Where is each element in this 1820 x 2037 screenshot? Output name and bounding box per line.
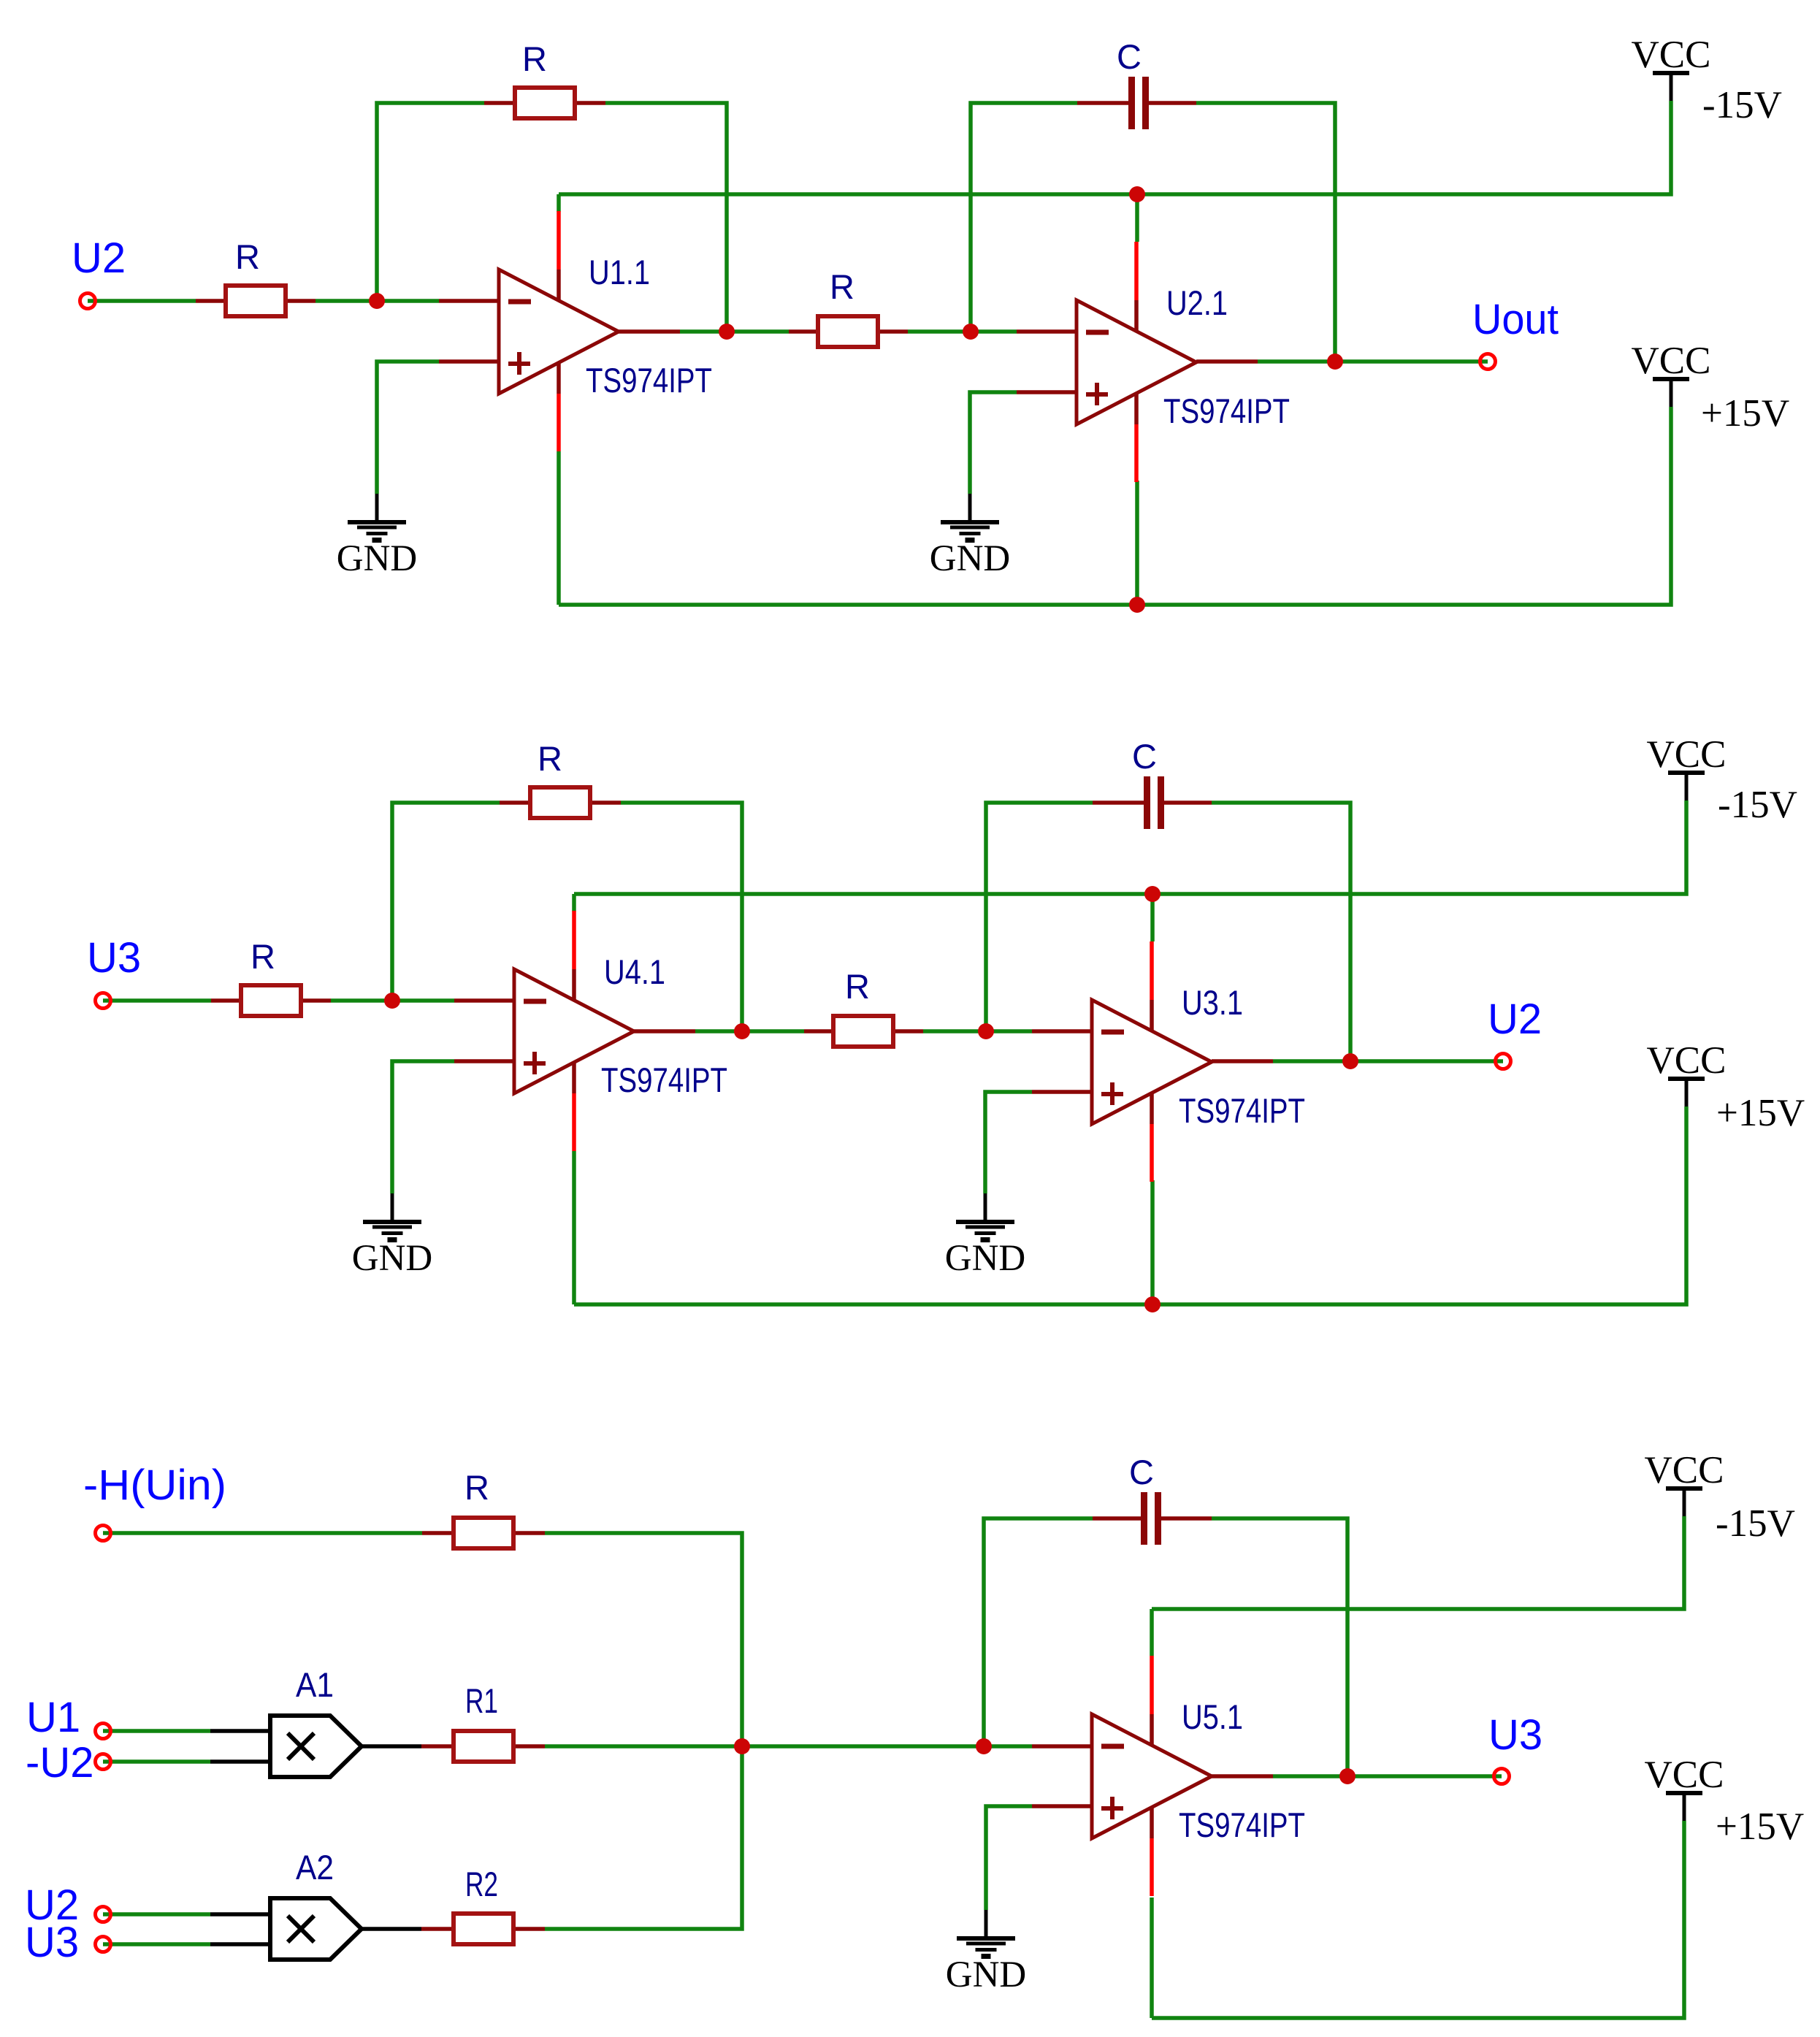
op-amp U4.1 triangle body [514,969,634,1093]
op-amp U4.1 non-inverting input marker [524,1061,546,1066]
pin stub capacitor right [1164,800,1212,805]
power symbol VCC-pos bar [1668,1077,1705,1081]
ground GND-row3 bars [957,1936,1015,1941]
svg-text:GND: GND [930,538,1011,579]
wire cap left vertical + top [986,803,1093,1031]
power symbol VCC-neg-row3 stem [1683,1491,1686,1516]
svg-text:A2: A2 [296,1848,334,1887]
svg-text:VCC: VCC [1645,1449,1724,1491]
wire op1 top pin link [557,194,561,212]
pin stub R2 left [421,1927,451,1931]
op-amp U2.1 inverting input marker [1086,330,1109,335]
power symbol VCC-pos stem [1670,381,1673,407]
input port -U2 [96,1754,111,1770]
wire -H(Uin) port to resistor [103,1531,422,1535]
multiplier A2 input pin lower [210,1942,270,1946]
capacitor C row3 [1141,1492,1147,1545]
wire U1 input [103,1729,210,1733]
op-amp U3.1 triangle body [1092,1000,1212,1124]
wire cap right top + vertical to output [1196,103,1335,362]
svg-text:-15V: -15V [1718,784,1797,826]
ground GND-row3 stem [984,1910,988,1936]
ground GND-b bars [941,520,999,524]
pin stub feedback resistor right [592,800,621,805]
svg-text:GND: GND [337,538,418,579]
wire op2 output to output port [1258,359,1488,364]
ground GND-b bars [956,1220,1014,1224]
wire op2 output to output port [1273,1059,1503,1063]
multiplier A2 X symbol [288,1916,314,1942]
wire cap left vertical + top [984,1518,1093,1746]
ground GND-b stem [984,1193,987,1220]
svg-text:U4.1: U4.1 [604,952,665,991]
junction summing node [734,1738,750,1754]
wire -U2 input [103,1759,210,1764]
op-amp U2.1 non-inverting input marker [1086,392,1108,397]
input port U2 row3 [96,1907,111,1922]
svg-text:U2: U2 [1488,995,1542,1043]
pin stub mid resistor right [895,1029,923,1033]
pin stub input resistor right [302,998,331,1003]
multiplier A1 body [270,1716,362,1777]
op-amp U5.1 V+ power pin (bottom) [1150,1806,1154,1838]
input port -H(Uin) [96,1526,111,1541]
op-amp U5.1 V- power pin (top) [1150,1656,1154,1714]
wire feedback left vertical + top [377,103,484,301]
junction op1 output node [719,324,735,340]
input port U1 [96,1724,111,1739]
power symbol VCC-pos-row3 stem [1683,1795,1686,1821]
ground GND-b stem [968,494,972,520]
wire feedback right top + vertical to output [605,103,727,332]
wire negative supply rail row3 [1152,1516,1684,1609]
svg-text:R: R [464,1468,489,1507]
wire op2 top pin link [1150,894,1155,941]
wire resistor R to summing vertical [545,1533,742,1929]
pin stub capacitor left [1077,101,1128,105]
svg-text:U2: U2 [72,234,126,282]
svg-text:U2.1: U2.1 [1166,283,1228,322]
op-amp U1.1 non-inverting input marker [508,362,530,366]
ground GND-a bars [348,520,406,524]
pin stub capacitor left [1093,800,1144,805]
pin stub feedback resistor left [484,101,513,105]
svg-text:GND: GND [945,1238,1026,1279]
multiplier A1 input pin upper [210,1729,270,1733]
svg-text:VCC: VCC [1647,733,1727,776]
svg-text:+15V: +15V [1701,392,1789,435]
svg-text:TS974IPT: TS974IPT [1179,1091,1305,1130]
svg-text:R: R [830,267,854,306]
wire cap right top + vertical [1212,1518,1347,1776]
op-amp U3.1 V+ power pin (bottom) [1150,1092,1154,1124]
wire negative supply rail [574,800,1686,894]
power symbol VCC-neg bar [1653,71,1689,75]
wire input node segment [316,299,439,303]
svg-text:-15V: -15V [1716,1502,1795,1545]
multiplier A1 X symbol [288,1733,314,1759]
svg-text:VCC: VCC [1645,1754,1724,1796]
svg-text:U3: U3 [1488,1711,1542,1759]
wire positive supply rail [574,1107,1686,1304]
op-amp U1.1 triangle body [499,270,619,394]
op-amp U5.1 inverting input marker [1101,1744,1124,1749]
svg-text:R: R [522,39,547,78]
power symbol VCC-neg stem [1670,75,1673,101]
wire U3 input [103,1942,210,1946]
svg-text:Uout: Uout [1472,296,1559,343]
svg-text:TS974IPT: TS974IPT [1179,1805,1305,1844]
junction op2 output node [1342,1053,1358,1069]
svg-text:U3: U3 [87,934,141,982]
svg-text:U1: U1 [26,1694,80,1741]
pin stub capacitor right [1149,101,1196,105]
junction input node [384,993,400,1009]
power symbol VCC-neg stem [1685,775,1689,800]
mid resistor R [818,316,878,347]
svg-text:R: R [538,739,562,778]
output port Uout [1480,354,1496,370]
pin stub R2 right [516,1927,545,1931]
resistor R2 [454,1914,513,1944]
pin stub mid resistor left [804,1029,832,1033]
pin stub op2 non-inverting input [1017,390,1077,394]
svg-text:GND: GND [946,1954,1027,1995]
junction op2 output node [1327,353,1343,370]
junction op2 V- on rail [1144,886,1161,902]
wire negative supply rail [559,101,1671,194]
op-amp U4.1 V+ power pin (bottom) [572,1061,576,1093]
svg-text:-15V: -15V [1702,84,1782,126]
input port U3 row3 [96,1937,111,1952]
op-amp U3.1 V- power pin (top) [1150,941,1154,1000]
svg-text:U3.1: U3.1 [1182,983,1243,1022]
pin stub input resistor left [196,299,224,303]
pin stub op1 output [619,329,680,334]
power symbol VCC-neg-row3 bar [1666,1486,1702,1491]
op-amp U5.1 non-inverting input marker [1101,1806,1123,1811]
pin stub op1 non-inverting input [439,359,499,364]
svg-text:U3: U3 [25,1919,79,1966]
wire feedback right top + vertical to output [621,803,742,1031]
svg-text:GND: GND [352,1238,433,1279]
pin stub cap3 left [1093,1516,1141,1521]
output port U2 [1496,1054,1511,1069]
junction op5 output node [1339,1768,1356,1784]
pin stub input resistor left [211,998,240,1003]
svg-text:TS974IPT: TS974IPT [1163,391,1290,430]
op-amp U3.1 non-inverting input marker [1101,1092,1123,1096]
input resistor R [241,985,301,1016]
resistor R row3 [454,1518,513,1548]
op-amp U2.1 V- power pin (top) [1134,242,1139,300]
op-amp U1.1 V- power pin (top) [557,211,561,270]
wire cap right top + vertical to output [1212,803,1350,1061]
pin stub op1 output [634,1029,695,1033]
pin stub op2 non-inverting input [1032,1090,1092,1094]
svg-text:TS974IPT: TS974IPT [601,1060,727,1099]
pin stub op2 output [1196,359,1258,364]
wire op2 top pin link [1135,194,1139,242]
svg-text:VCC: VCC [1632,340,1711,382]
wire cap left vertical + top [971,103,1077,332]
wire op1 non-inverting to ground [392,1061,454,1193]
input port U2 [80,294,96,309]
pin stub op5 non-inverting [1032,1804,1092,1808]
wire summing node to op5 inverting [742,1744,1032,1749]
svg-text:C: C [1132,737,1157,776]
pin stub feedback resistor right [577,101,605,105]
junction op1 output node [734,1023,750,1039]
wire op5 bottom pin link [1150,1897,1154,2018]
op-amp U1.1 V+ power pin (bottom) [557,362,561,394]
junction op2 V- on rail [1129,186,1145,202]
wire op5 non-inverting to ground [986,1806,1032,1910]
power symbol VCC-pos-row3 bar [1666,1791,1702,1795]
svg-text:+15V: +15V [1716,1805,1804,1848]
wire op2 non-inverting to ground [985,1092,1032,1193]
junction op2 inverting node [963,324,979,340]
op-amp U2.1 V+ power pin (bottom) [1134,392,1139,424]
resistor R1 [454,1731,513,1762]
junction op2 inverting node [978,1023,994,1039]
pin stub op5 inverting [1032,1744,1092,1749]
svg-text:U1.1: U1.1 [589,253,650,291]
svg-text:VCC: VCC [1632,34,1711,76]
pin stub row3 R right [516,1531,545,1535]
pin stub R1 right [516,1744,545,1749]
wire op1 bottom pin link [572,1151,576,1304]
pin stub mid resistor right [880,329,908,334]
svg-text:R: R [251,937,275,976]
junction op2 V+ on rail [1129,597,1145,613]
wire input node segment [331,998,454,1003]
feedback resistor R [515,88,575,118]
wire R1 output to summing node [545,1744,742,1749]
multiplier A1 input pin lower [210,1759,270,1764]
pin stub feedback resistor left [500,800,528,805]
pin stub op1 inverting input [439,299,499,303]
wire op2 bottom pin link [1135,481,1139,605]
svg-text:VCC: VCC [1647,1039,1727,1082]
wire op1 bottom pin link [557,451,561,605]
wire op1 output to mid resistor [680,329,789,334]
wire op1 top pin link [572,894,576,912]
wire U2 input [103,1912,210,1916]
wire op2 bottom pin link [1150,1180,1155,1304]
svg-text:TS974IPT: TS974IPT [586,361,712,400]
power symbol VCC-pos stem [1685,1081,1689,1107]
multiplier A2 input pin upper [210,1912,270,1916]
pin stub op5 output [1212,1774,1273,1778]
wire op1 non-inverting to ground [377,362,439,494]
op-amp U4.1 inverting input marker [524,999,546,1004]
op-amp U5.1 triangle body [1092,1714,1212,1838]
op-amp U4.1 V- power pin (top) [572,911,576,969]
svg-text:U5.1: U5.1 [1182,1697,1243,1736]
wire op5 output to port U3 [1273,1774,1502,1778]
ground GND-a stem [391,1193,394,1220]
multiplier A2 output pin [362,1927,421,1931]
svg-text:R2: R2 [465,1865,498,1903]
feedback capacitor C [1144,776,1150,829]
junction op2 V+ on rail [1144,1296,1161,1312]
pin stub cap3 right [1161,1516,1212,1521]
wire op5 top pin link [1150,1609,1154,1656]
pin stub op2 inverting input [1017,329,1077,334]
wire op1 output to mid resistor [695,1029,804,1033]
wire positive supply rail row3 [1152,1821,1684,2018]
svg-text:R: R [845,967,870,1006]
wire input net from port to input resistor [103,998,211,1003]
svg-text:R: R [235,237,260,276]
svg-text:+15V: +15V [1716,1092,1805,1134]
multiplier A1 output pin [362,1744,421,1749]
input port U3 [96,993,111,1009]
junction op5 inverting node [976,1738,992,1754]
power symbol VCC-neg bar [1668,771,1705,775]
multiplier A2 body [270,1898,362,1960]
ground GND-a stem [375,494,379,520]
svg-text:-U2: -U2 [26,1739,93,1786]
pin stub mid resistor left [789,329,817,334]
pin stub op2 output [1212,1059,1273,1063]
wire mid resistor to op2 inverting node [908,329,1017,334]
pin stub row3 R left [422,1531,451,1535]
wire op2 non-inverting to ground [970,392,1017,494]
op-amp U1.1 inverting input marker [508,299,531,305]
wire feedback left vertical + top [392,803,500,1001]
svg-text:-H(Uin): -H(Uin) [83,1461,226,1509]
op-amp U2.1 triangle body [1077,300,1196,424]
input resistor R [226,286,286,316]
pin stub op1 non-inverting input [454,1059,514,1063]
pin stub input resistor right [287,299,316,303]
pin stub op2 inverting input [1032,1029,1092,1033]
power symbol VCC-pos bar [1653,377,1689,381]
wire positive supply rail [559,407,1671,605]
pin stub R1 left [421,1744,451,1749]
pin stub op1 inverting input [454,998,514,1003]
mid resistor R [833,1016,893,1047]
feedback capacitor C [1128,77,1135,129]
wire input net from port to input resistor [88,299,196,303]
op-amp U3.1 inverting input marker [1101,1030,1124,1035]
svg-text:A1: A1 [296,1665,334,1704]
output port U3 [1494,1769,1510,1784]
junction input node [369,293,385,309]
wire mid resistor to op2 inverting node [923,1029,1032,1033]
ground GND-a bars [363,1220,421,1224]
svg-text:R1: R1 [465,1681,498,1720]
svg-text:C: C [1129,1453,1154,1491]
feedback resistor R [530,787,590,818]
svg-text:C: C [1117,37,1142,76]
